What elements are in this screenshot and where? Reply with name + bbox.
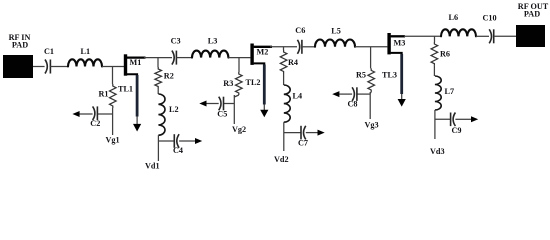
svg-text:R6: R6 [440,50,450,59]
svg-text:R3: R3 [223,79,233,88]
wire R1 to Vg1 [112,108,114,135]
wire L4 to Vd2 [283,122,285,151]
wire C7 to arrow [306,132,318,134]
terminal arrow Vd1 feed [195,138,202,144]
transistor M1 [124,54,146,76]
wire R4 to L4 [283,74,285,86]
wire C6 to L5 [302,46,315,48]
RF IN PAD [3,33,33,78]
terminal arrow Vg2 feed [199,101,206,107]
wire L3 to gate M2 [228,57,250,59]
svg-text:PAD: PAD [12,41,28,50]
wire R5 to Vg3 [370,92,371,119]
terminal arrow Vd2 feed [318,130,325,136]
capacitor C4 [173,134,183,155]
svg-text:L5: L5 [331,26,341,35]
svg-text:C7: C7 [298,138,308,147]
resistor R6 [431,42,450,66]
terminal arrow Vd3 feed [471,116,478,122]
wire drain M3 rail [404,35,441,37]
svg-text:C3: C3 [171,36,181,45]
svg-text:C5: C5 [217,110,227,119]
wire C5 to arrow [207,103,219,105]
resistor R1 [99,84,117,108]
svg-text:Vg2: Vg2 [232,125,246,134]
svg-text:TL3: TL3 [382,71,397,80]
svg-text:TL1: TL1 [118,85,133,94]
transistor M2 [250,44,272,67]
svg-text:M2: M2 [257,48,269,57]
capacitor C1 [44,47,54,74]
terminal arrow Vg3 feed [332,91,339,97]
svg-text:M1: M1 [130,58,142,67]
svg-text:C6: C6 [295,26,305,35]
resistor R4 [280,50,298,74]
svg-text:R5: R5 [356,71,366,80]
wire drain2 branch [283,47,285,50]
terminal arrow Vg1 feed [72,111,79,117]
wire R3 to Vg2 [234,95,239,124]
svg-text:C10: C10 [483,14,497,23]
transmission line TL1 [118,75,141,132]
svg-text:L1: L1 [81,47,91,56]
resistor R5 [356,68,375,92]
wire drain1 branch [157,58,159,67]
wire L6 to C10 [476,35,489,37]
svg-text:R1: R1 [99,90,109,99]
node gate1 junction [112,67,114,85]
inductor L3 [192,36,228,57]
svg-text:R4: R4 [288,58,298,67]
transistor M3 [387,33,405,57]
node gate2 junction [238,58,240,72]
capacitor C6 [295,26,305,54]
wire C5 branch [224,103,235,105]
inductor L6 [441,13,476,36]
svg-text:Vd1: Vd1 [145,161,160,170]
svg-text:Vd2: Vd2 [274,155,289,164]
wire drain M1 rail [144,57,172,59]
wire L2 to Vd1 [157,135,159,161]
inductor L7 [435,76,454,110]
RF OUT PAD [516,2,549,47]
svg-text:M3: M3 [394,39,406,48]
wire L7 to Vd3 [434,110,436,139]
inductor L1 [68,47,102,67]
svg-text:C2: C2 [90,119,100,128]
wire C3 to L3 [176,57,192,59]
wire R6 to L7 [433,66,435,76]
wire L5 to gate M3 [355,46,387,48]
transmission line TL3 [382,54,406,107]
wire C2 branch [97,113,112,115]
wire C9 to arrow [455,118,471,120]
wire C8 branch [357,93,370,95]
wire C4 branch [158,140,174,142]
capacitor C10 [483,14,497,44]
wire C7 branch [284,132,301,134]
wire C9 branch [435,118,451,120]
inductor L2 [158,94,178,135]
wire C4 to arrow [179,140,195,142]
capacitor C7 [298,126,308,148]
svg-text:Vg3: Vg3 [365,121,379,130]
resistor R2 [155,67,174,89]
svg-text:Vd3: Vd3 [430,147,445,156]
svg-text:L2: L2 [169,105,179,114]
wire pad to C1 [33,66,45,68]
wire C10 to output pad [494,35,516,37]
capacitor C3 [171,36,181,64]
capacitor C5 [217,97,227,119]
svg-text:PAD: PAD [524,10,540,19]
node gate3 junction [370,47,372,69]
svg-text:TL2: TL2 [246,78,261,87]
inductor L5 [315,26,355,47]
inductor L4 [284,85,302,122]
capacitor C9 [451,113,462,136]
svg-text:L6: L6 [449,13,459,22]
wire C2 to arrow [80,113,93,115]
svg-text:L4: L4 [293,92,303,101]
svg-text:L3: L3 [208,36,218,45]
wire L1 to gate node [102,66,124,68]
transmission line TL2 [246,65,269,118]
resistor R3 [223,72,242,95]
svg-text:L7: L7 [445,87,455,96]
wire R2 to L2 [157,89,159,95]
capacitor C2 [90,106,100,128]
wire drain3 branch [434,36,436,42]
capacitor C8 [348,87,358,108]
wire C8 to arrow [339,93,352,95]
wire drain M2 rail [270,46,297,48]
svg-text:C1: C1 [44,47,54,56]
svg-text:Vg1: Vg1 [106,136,120,145]
svg-text:R2: R2 [164,72,174,81]
svg-text:C9: C9 [452,126,462,135]
wire C1 to L1 [50,66,68,68]
